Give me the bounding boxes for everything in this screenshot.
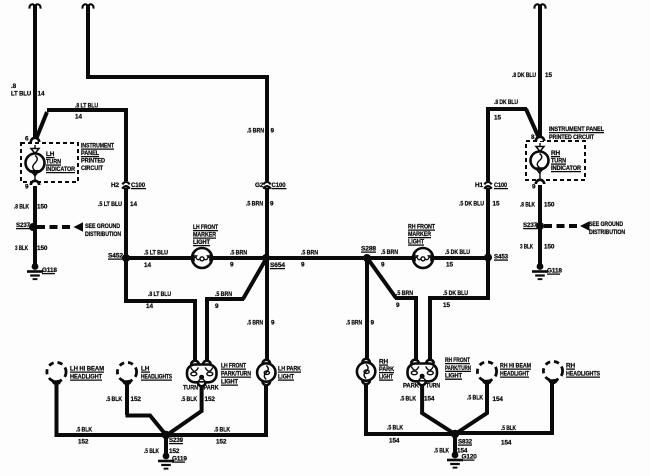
- svg-text:MARKER: MARKER: [193, 232, 216, 239]
- svg-text:150: 150: [37, 245, 48, 252]
- svg-text:TURN: TURN: [183, 385, 198, 392]
- svg-text:.5 BRN: .5 BRN: [301, 250, 318, 257]
- svg-text:9: 9: [396, 302, 400, 309]
- svg-text:.5 BLK: .5 BLK: [400, 396, 416, 403]
- svg-text:9: 9: [381, 262, 385, 269]
- svg-text:15: 15: [494, 115, 501, 122]
- svg-text:INDICATOR: INDICATOR: [551, 165, 581, 172]
- svg-text:.8 BLK: .8 BLK: [520, 202, 535, 209]
- svg-text:15: 15: [446, 262, 453, 269]
- svg-text:.5 BLK: .5 BLK: [214, 427, 230, 434]
- svg-text:3 BLK: 3 BLK: [520, 244, 533, 251]
- svg-text:14: 14: [144, 262, 151, 269]
- svg-text:S237: S237: [16, 222, 31, 229]
- svg-text:152: 152: [169, 448, 180, 455]
- svg-text:INDICATOR: INDICATOR: [46, 166, 75, 173]
- svg-text:.8: .8: [11, 83, 17, 90]
- svg-text:RH: RH: [551, 150, 561, 157]
- svg-text:.5 BLK: .5 BLK: [106, 396, 122, 403]
- svg-text:DISTRIBUTION: DISTRIBUTION: [589, 229, 625, 236]
- svg-text:.5 BRN: .5 BRN: [246, 201, 263, 208]
- svg-text:.5 DK BLU: .5 DK BLU: [445, 249, 470, 256]
- svg-text:9: 9: [270, 201, 274, 208]
- svg-text:C100: C100: [494, 182, 507, 189]
- svg-text:S288: S288: [361, 246, 377, 253]
- svg-text:.5 BLK: .5 BLK: [501, 425, 516, 432]
- svg-text:.5 BRN: .5 BRN: [215, 291, 232, 298]
- svg-text:C100: C100: [131, 182, 146, 189]
- svg-text:14: 14: [75, 114, 82, 121]
- svg-text:TURN: TURN: [551, 158, 566, 165]
- svg-text:150: 150: [544, 244, 555, 251]
- svg-text:H1: H1: [475, 182, 484, 189]
- svg-text:.5 BLK: .5 BLK: [467, 395, 483, 402]
- svg-text:.8 BLK: .8 BLK: [14, 204, 29, 211]
- svg-text:9: 9: [371, 320, 375, 327]
- svg-text:.8 DK BLU: .8 DK BLU: [494, 99, 518, 106]
- svg-text:LIGHT: LIGHT: [193, 239, 210, 246]
- svg-text:15: 15: [545, 72, 552, 79]
- svg-text:INSTRUMENT PANEL: INSTRUMENT PANEL: [549, 126, 604, 133]
- svg-text:15: 15: [493, 201, 500, 208]
- svg-text:LH: LH: [46, 151, 55, 158]
- svg-text:LT BLU: LT BLU: [11, 91, 31, 98]
- svg-text:8: 8: [531, 134, 535, 141]
- svg-text:9: 9: [301, 262, 305, 269]
- svg-text:.5 BRN: .5 BRN: [396, 290, 413, 297]
- svg-text:.5 BLK: .5 BLK: [387, 425, 403, 432]
- svg-text:.5 LT BLU: .5 LT BLU: [144, 250, 168, 257]
- svg-text:154: 154: [493, 396, 504, 403]
- svg-text:9: 9: [230, 262, 234, 269]
- svg-text:14: 14: [38, 91, 45, 98]
- svg-text:LH FRONT: LH FRONT: [193, 224, 218, 231]
- svg-text:DISTRIBUTION: DISTRIBUTION: [85, 231, 121, 238]
- svg-text:.5 BRN: .5 BRN: [381, 249, 398, 256]
- svg-text:.5 BLK: .5 BLK: [76, 427, 92, 434]
- svg-text:TURN: TURN: [46, 159, 61, 166]
- svg-text:150: 150: [544, 202, 555, 209]
- svg-text:S237: S237: [523, 222, 538, 229]
- svg-text:9: 9: [25, 184, 29, 191]
- svg-text:.8 DK BLU: .8 DK BLU: [512, 72, 536, 79]
- svg-text:PARK: PARK: [204, 385, 219, 392]
- svg-text:SEE GROUND: SEE GROUND: [85, 223, 120, 230]
- svg-text:.5 BRN: .5 BRN: [230, 250, 247, 257]
- svg-text:.5 BLK: .5 BLK: [144, 448, 159, 455]
- svg-text:152: 152: [131, 396, 142, 403]
- svg-text:.8 LT BLU: .8 LT BLU: [148, 291, 171, 298]
- svg-text:9: 9: [271, 128, 275, 135]
- svg-text:3 BLK: 3 BLK: [15, 245, 28, 252]
- svg-text:14: 14: [130, 201, 137, 208]
- svg-text:152: 152: [78, 439, 89, 446]
- svg-text:PRINTED CIRCUIT: PRINTED CIRCUIT: [549, 134, 594, 141]
- svg-text:CIRCUIT: CIRCUIT: [81, 165, 103, 172]
- svg-text:SEE GROUND: SEE GROUND: [589, 221, 623, 228]
- svg-text:9: 9: [532, 184, 536, 191]
- svg-text:9: 9: [271, 320, 275, 327]
- svg-text:TURN: TURN: [426, 383, 440, 390]
- svg-text:9: 9: [215, 303, 219, 310]
- svg-text:.8 LT BLU: .8 LT BLU: [75, 103, 98, 110]
- svg-text:150: 150: [37, 204, 48, 211]
- svg-text:152: 152: [216, 439, 227, 446]
- svg-text:154: 154: [389, 438, 400, 445]
- svg-text:.5 BLK: .5 BLK: [181, 396, 197, 403]
- svg-text:PANEL: PANEL: [81, 150, 99, 157]
- svg-text:C100: C100: [272, 182, 287, 189]
- svg-text:15: 15: [443, 302, 450, 309]
- svg-text:MARKER: MARKER: [408, 231, 431, 238]
- svg-text:LIGHT: LIGHT: [408, 239, 424, 246]
- svg-text:RH FRONT: RH FRONT: [408, 224, 435, 231]
- svg-text:.5 DK BLU: .5 DK BLU: [459, 201, 484, 208]
- svg-text:G2: G2: [255, 182, 264, 189]
- svg-text:H2: H2: [111, 182, 120, 189]
- svg-text:.5 DK BLU: .5 DK BLU: [443, 290, 468, 297]
- svg-text:.5 BRN: .5 BRN: [247, 128, 264, 135]
- svg-text:PRINTED: PRINTED: [81, 158, 105, 165]
- svg-text:152: 152: [205, 396, 216, 403]
- svg-text:6: 6: [25, 136, 29, 143]
- svg-text:INSTRUMENT: INSTRUMENT: [81, 143, 114, 150]
- svg-text:154: 154: [424, 396, 435, 403]
- svg-text:.5 BRN: .5 BRN: [346, 320, 362, 327]
- svg-text:14: 14: [146, 303, 153, 310]
- svg-text:PARK: PARK: [403, 383, 419, 390]
- svg-text:.5 BRN: .5 BRN: [247, 320, 263, 327]
- svg-text:154: 154: [501, 440, 512, 447]
- svg-text:.5 LT BLU: .5 LT BLU: [98, 201, 122, 208]
- svg-text:.5 BLK: .5 BLK: [434, 448, 449, 455]
